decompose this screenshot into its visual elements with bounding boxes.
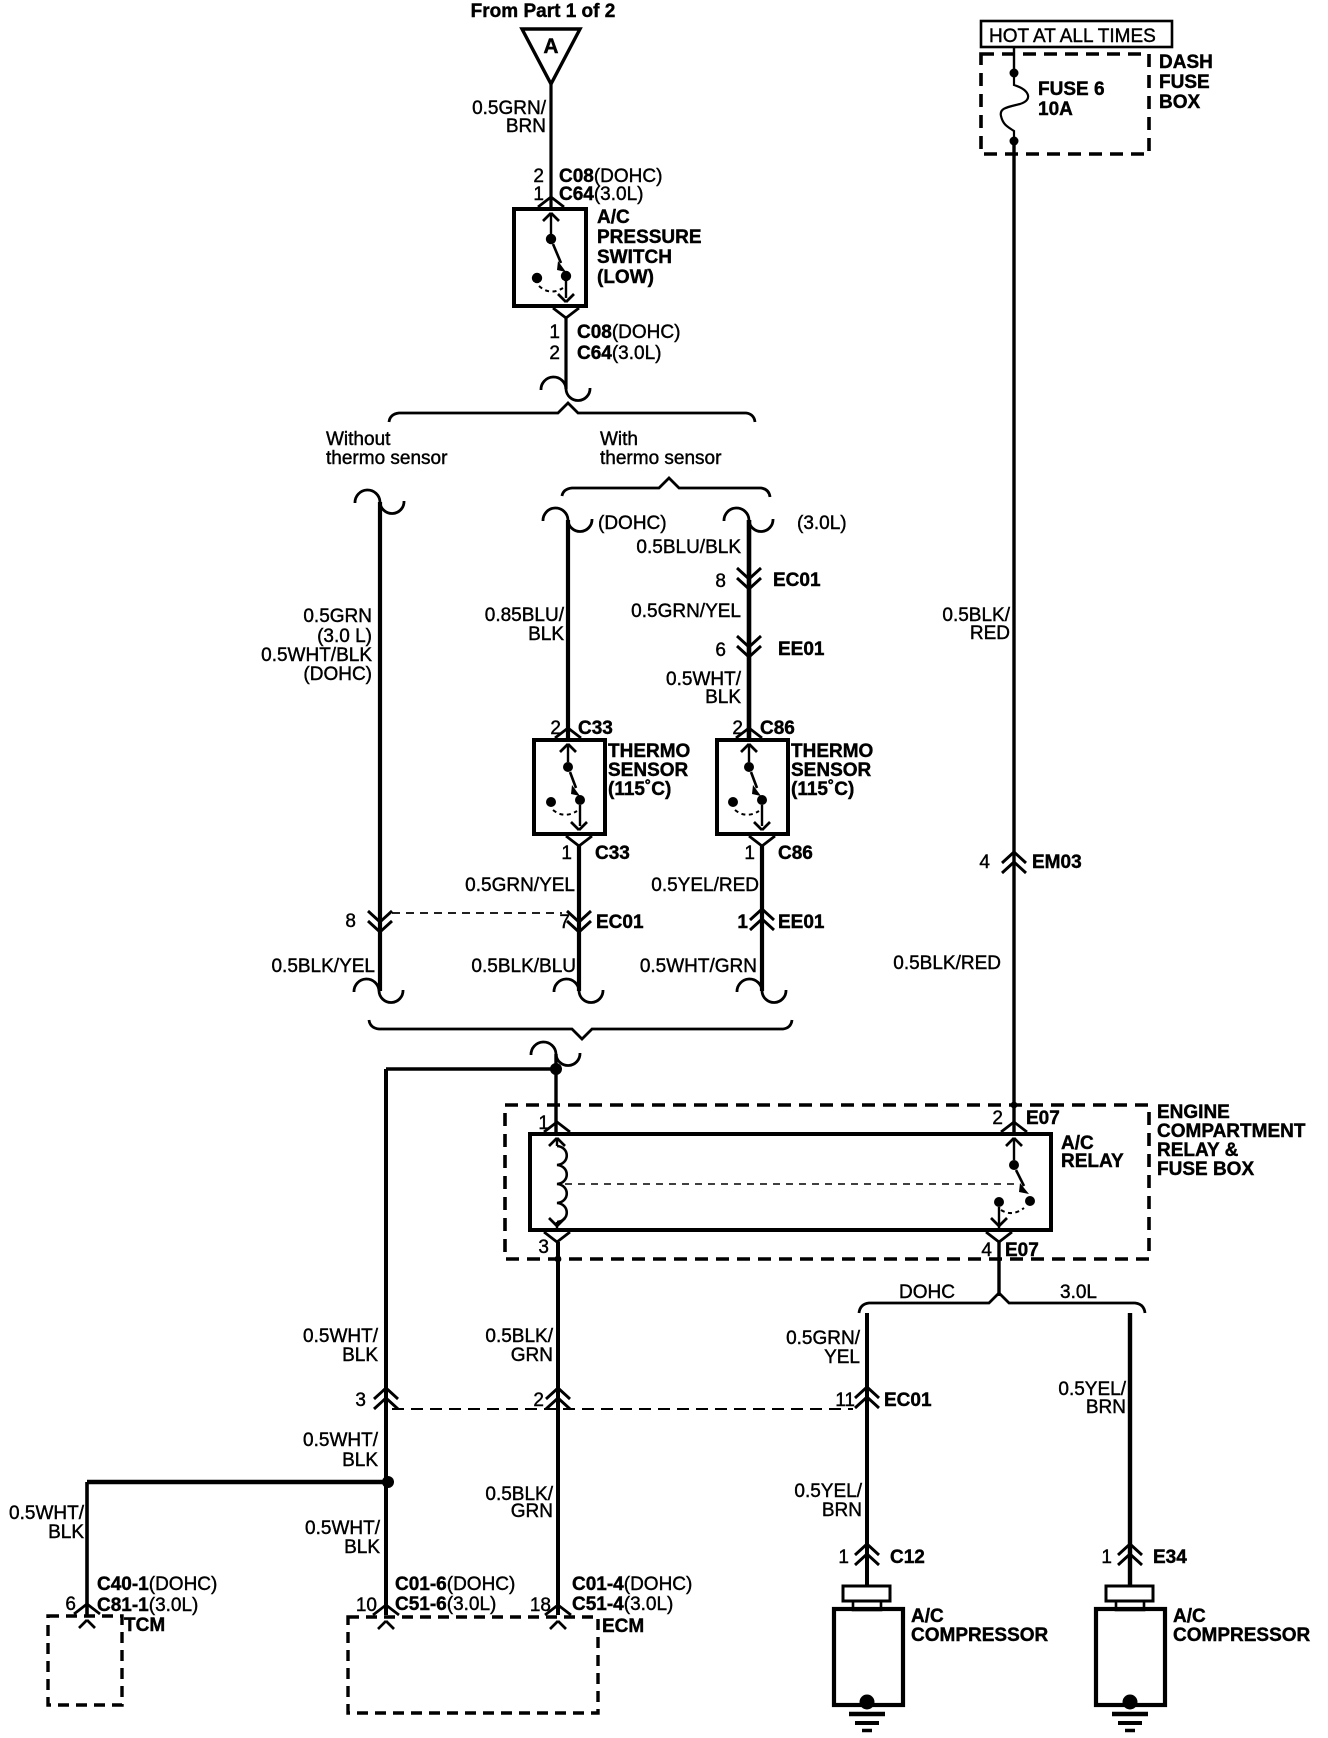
svg-text:FUSE 6: FUSE 6 (1038, 79, 1105, 100)
svg-text:E07: E07 (1026, 1108, 1060, 1129)
svg-text:thermo sensor: thermo sensor (326, 448, 448, 469)
svg-text:10A: 10A (1038, 99, 1073, 120)
svg-text:RED: RED (970, 623, 1010, 644)
svg-text:BRN: BRN (506, 116, 546, 137)
svg-text:E34: E34 (1153, 1547, 1187, 1568)
svg-text:C33: C33 (578, 718, 613, 739)
svg-text:E07: E07 (1005, 1240, 1039, 1261)
svg-text:0.5YEL/RED: 0.5YEL/RED (651, 875, 759, 896)
svg-text:(DOHC): (DOHC) (598, 513, 667, 534)
svg-text:0.5GRN/YEL: 0.5GRN/YEL (631, 601, 741, 622)
svg-text:0.5WHT/: 0.5WHT/ (305, 1518, 381, 1539)
svg-text:(3.0L): (3.0L) (797, 513, 847, 534)
svg-text:FUSE: FUSE (1159, 72, 1210, 93)
svg-text:Without: Without (326, 429, 391, 450)
svg-text:C51-4(3.0L): C51-4(3.0L) (572, 1594, 673, 1615)
svg-text:BLK: BLK (528, 624, 564, 645)
svg-text:0.85BLU/: 0.85BLU/ (485, 605, 565, 626)
svg-text:From Part 1 of 2: From Part 1 of 2 (471, 1, 616, 22)
svg-text:C08(DOHC): C08(DOHC) (577, 322, 680, 343)
svg-text:COMPRESSOR: COMPRESSOR (1173, 1625, 1311, 1646)
svg-text:BRN: BRN (822, 1500, 862, 1521)
svg-text:HOT AT ALL TIMES: HOT AT ALL TIMES (989, 26, 1156, 47)
svg-text:COMPRESSOR: COMPRESSOR (911, 1625, 1049, 1646)
svg-text:0.5WHT/GRN: 0.5WHT/GRN (640, 956, 757, 977)
svg-text:0.5WHT/: 0.5WHT/ (303, 1326, 379, 1347)
svg-text:(LOW): (LOW) (597, 267, 654, 288)
svg-text:RELAY &: RELAY & (1157, 1140, 1239, 1161)
svg-text:GRN: GRN (511, 1501, 553, 1522)
svg-text:1: 1 (538, 1113, 549, 1134)
svg-text:0.5BLK/YEL: 0.5BLK/YEL (271, 956, 375, 977)
svg-text:BOX: BOX (1159, 92, 1201, 113)
svg-text:0.5BLK/RED: 0.5BLK/RED (893, 953, 1001, 974)
svg-text:2: 2 (533, 1390, 544, 1411)
svg-text:0.5WHT/BLK: 0.5WHT/BLK (261, 645, 372, 666)
svg-text:EC01: EC01 (773, 570, 821, 591)
svg-text:BLK: BLK (48, 1522, 84, 1543)
svg-text:C86: C86 (778, 843, 813, 864)
svg-text:C01-6(DOHC): C01-6(DOHC) (395, 1574, 515, 1595)
svg-text:A/C: A/C (597, 207, 630, 228)
svg-text:1: 1 (737, 912, 748, 933)
svg-text:0.5WHT/: 0.5WHT/ (9, 1503, 85, 1524)
svg-text:(3.0 L): (3.0 L) (317, 626, 372, 647)
svg-text:0.5YEL/: 0.5YEL/ (794, 1481, 862, 1502)
svg-text:COMPARTMENT: COMPARTMENT (1157, 1121, 1306, 1142)
svg-text:A: A (543, 35, 558, 58)
svg-text:1: 1 (838, 1547, 849, 1568)
svg-text:1: 1 (744, 843, 755, 864)
svg-text:EC01: EC01 (596, 912, 644, 933)
svg-text:C40-1(DOHC): C40-1(DOHC) (97, 1574, 217, 1595)
svg-text:YEL: YEL (824, 1347, 860, 1368)
svg-text:C01-4(DOHC): C01-4(DOHC) (572, 1574, 692, 1595)
svg-text:8: 8 (715, 571, 726, 592)
svg-text:2: 2 (549, 343, 560, 364)
svg-text:3: 3 (538, 1237, 549, 1258)
svg-text:ECM: ECM (602, 1616, 644, 1637)
svg-text:0.5BLU/BLK: 0.5BLU/BLK (636, 537, 741, 558)
svg-text:SENSOR: SENSOR (608, 760, 689, 781)
svg-text:C81-1(3.0L): C81-1(3.0L) (97, 1595, 198, 1616)
svg-text:PRESSURE: PRESSURE (597, 227, 702, 248)
svg-text:DOHC: DOHC (899, 1282, 955, 1303)
svg-text:EE01: EE01 (778, 639, 825, 660)
svg-text:ENGINE: ENGINE (1157, 1102, 1230, 1123)
svg-text:1: 1 (533, 184, 544, 205)
svg-text:TCM: TCM (124, 1615, 165, 1636)
svg-text:FUSE BOX: FUSE BOX (1157, 1159, 1254, 1180)
svg-text:1: 1 (549, 322, 560, 343)
svg-text:SWITCH: SWITCH (597, 247, 672, 268)
svg-text:RELAY: RELAY (1061, 1151, 1124, 1172)
svg-text:BRN: BRN (1086, 1397, 1126, 1418)
svg-text:BLK: BLK (705, 687, 741, 708)
svg-text:(115˚C): (115˚C) (791, 779, 854, 800)
svg-text:10: 10 (356, 1595, 377, 1616)
svg-text:DASH: DASH (1159, 52, 1213, 73)
svg-text:2: 2 (732, 718, 743, 739)
svg-text:3.0L: 3.0L (1060, 1282, 1097, 1303)
svg-text:11: 11 (835, 1390, 855, 1411)
svg-text:BLK: BLK (342, 1345, 378, 1366)
svg-text:BLK: BLK (342, 1450, 378, 1471)
svg-text:2: 2 (550, 718, 561, 739)
svg-text:4: 4 (979, 852, 990, 873)
svg-text:(115˚C): (115˚C) (608, 779, 671, 800)
svg-text:2: 2 (992, 1108, 1003, 1129)
svg-text:0.5GRN/: 0.5GRN/ (786, 1328, 861, 1349)
svg-text:THERMO: THERMO (608, 741, 690, 762)
svg-text:C12: C12 (890, 1547, 925, 1568)
svg-text:1: 1 (1101, 1547, 1112, 1568)
svg-text:C33: C33 (595, 843, 630, 864)
svg-text:8: 8 (345, 911, 356, 932)
svg-text:BLK: BLK (344, 1537, 380, 1558)
svg-text:C86: C86 (760, 718, 795, 739)
svg-text:0.5BLK/BLU: 0.5BLK/BLU (471, 956, 576, 977)
svg-text:0.5BLK/: 0.5BLK/ (485, 1326, 553, 1347)
svg-text:EE01: EE01 (778, 912, 825, 933)
svg-text:7: 7 (559, 912, 570, 933)
svg-text:A/C: A/C (1173, 1606, 1206, 1627)
svg-text:6: 6 (65, 1594, 76, 1615)
svg-text:A/C: A/C (911, 1606, 944, 1627)
svg-text:SENSOR: SENSOR (791, 760, 872, 781)
svg-text:thermo sensor: thermo sensor (600, 448, 722, 469)
svg-text:With: With (600, 429, 638, 450)
svg-text:0.5WHT/: 0.5WHT/ (303, 1430, 379, 1451)
svg-text:1: 1 (561, 843, 572, 864)
svg-text:THERMO: THERMO (791, 741, 873, 762)
svg-text:18: 18 (530, 1595, 551, 1616)
svg-text:0.5GRN: 0.5GRN (303, 606, 372, 627)
svg-text:C64(3.0L): C64(3.0L) (559, 184, 644, 205)
svg-text:C64(3.0L): C64(3.0L) (577, 343, 662, 364)
svg-text:(DOHC): (DOHC) (303, 664, 372, 685)
svg-text:EM03: EM03 (1032, 852, 1082, 873)
svg-text:0.5GRN/YEL: 0.5GRN/YEL (465, 875, 575, 896)
svg-text:3: 3 (355, 1390, 366, 1411)
svg-text:GRN: GRN (511, 1345, 553, 1366)
svg-text:4: 4 (981, 1240, 992, 1261)
svg-text:6: 6 (715, 640, 726, 661)
svg-text:C51-6(3.0L): C51-6(3.0L) (395, 1594, 496, 1615)
svg-text:EC01: EC01 (884, 1390, 932, 1411)
